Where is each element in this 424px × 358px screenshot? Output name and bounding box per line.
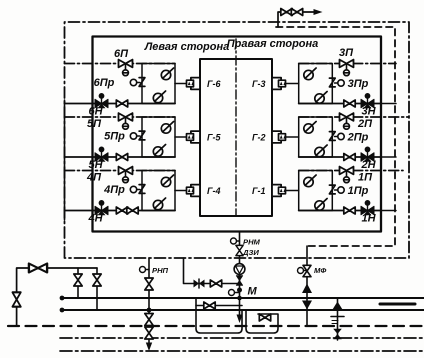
- wire Ф column: [337, 298, 339, 340]
- pump circle: [234, 264, 245, 275]
- valve top branch 1: [281, 9, 292, 16]
- wire dash-dot line 6П: [65, 63, 176, 65]
- wire to connector Г-5: [175, 136, 187, 138]
- wire top external branch: [278, 12, 303, 27]
- gauge upper row 2П: [304, 122, 316, 134]
- connector Г-1: [272, 185, 286, 197]
- wire bypass branch: [184, 258, 240, 284]
- svg-text:6П: 6П: [114, 48, 129, 60]
- gauge lower row 3П: [315, 92, 327, 104]
- svg-text:6Пр: 6Пр: [94, 77, 115, 89]
- wire dash-dot line 3П: [299, 63, 396, 65]
- three-way valve 4Н: [95, 200, 108, 215]
- valve 1П: [340, 167, 354, 183]
- instrument box row 5П: [142, 117, 175, 157]
- gauge lower row 6П: [153, 91, 165, 103]
- wire drop left 1: [77, 268, 79, 298]
- wire dash-dot line 2П: [299, 116, 409, 118]
- check valve МФ upper: [302, 284, 312, 294]
- wire arrow top branch: [303, 11, 318, 13]
- wire РНП riser: [148, 258, 150, 343]
- valve loop 2: [259, 314, 270, 321]
- valve left external: [29, 264, 47, 273]
- svg-text:5Н: 5Н: [88, 159, 103, 171]
- wire line 3Н: [299, 103, 381, 105]
- wire to connector Г-1: [286, 190, 299, 192]
- valve loop 1: [204, 302, 215, 309]
- central distributor box: [200, 59, 272, 216]
- sensor М circle: [229, 290, 240, 296]
- gate valve drop left 2: [93, 274, 101, 286]
- restrictor circle 2Пр: [335, 133, 345, 139]
- gauge lower row 2П: [315, 145, 327, 157]
- valve 3П: [340, 60, 354, 76]
- tee bar Ф: [331, 316, 344, 318]
- wire dash-dot line 1П: [299, 170, 403, 172]
- wire line 6Н: [65, 103, 176, 105]
- centerline of distributor box: [235, 39, 237, 216]
- wire drop left 2: [96, 268, 98, 310]
- gauge upper row 5П: [161, 122, 173, 134]
- valve 5П: [119, 113, 133, 129]
- wire to connector Г-6: [175, 83, 187, 85]
- svg-text:Г-6: Г-6: [207, 79, 222, 89]
- wire to connector Г-2: [286, 136, 299, 138]
- outer dash-dot enclosure frame: [65, 22, 410, 258]
- svg-text:РНП: РНП: [152, 266, 169, 275]
- gauge lower row 1П: [315, 199, 327, 211]
- valve 4П: [119, 167, 133, 183]
- check valve МФ lower: [302, 301, 312, 310]
- valve on line 1Н: [344, 207, 355, 214]
- left header pipe: [64, 100, 66, 220]
- three-way valve 1Н: [361, 200, 374, 215]
- valve on line 5Н: [116, 154, 127, 161]
- wire line 4Н: [65, 210, 176, 212]
- svg-text:Правая сторона: Правая сторона: [227, 38, 319, 50]
- gauge lower row 5П: [153, 145, 165, 157]
- svg-text:4П: 4П: [86, 172, 102, 184]
- instrument box row 4П: [142, 171, 175, 211]
- sensor РНП: [140, 267, 150, 273]
- wire line 5Н: [65, 156, 176, 158]
- gauge upper row 3П: [304, 68, 316, 80]
- svg-text:М: М: [248, 286, 258, 298]
- instrument box row 2П: [299, 117, 333, 157]
- connector Г-3: [272, 78, 286, 90]
- svg-text:3П: 3П: [339, 47, 354, 59]
- svg-text:РНМ: РНМ: [243, 238, 261, 247]
- dashed drain line: [8, 325, 424, 327]
- gate valve РНП upper: [145, 278, 153, 290]
- gauge upper row 1П: [304, 175, 316, 187]
- svg-text:1Пр: 1Пр: [348, 185, 369, 197]
- valve on line 2Н: [344, 154, 355, 161]
- connector Г-6: [187, 78, 201, 90]
- connector Г-5: [187, 131, 201, 143]
- three-way valve 2Н: [361, 147, 374, 162]
- sensor МФ: [298, 268, 308, 274]
- connector Г-4: [187, 185, 201, 197]
- three-way valve 6Н: [95, 93, 108, 108]
- gate valve Ф: [333, 329, 342, 339]
- loop coil 2: [246, 310, 278, 333]
- gauge lower row 4П: [153, 198, 165, 210]
- svg-text:Г-2: Г-2: [252, 133, 266, 143]
- gauge upper row 4П: [161, 175, 173, 187]
- instrument box row 1П: [299, 171, 333, 211]
- wire dash-dot line 4П: [65, 170, 176, 172]
- svg-text:4Пр: 4Пр: [103, 184, 125, 196]
- restrictor circle 1Пр: [335, 187, 345, 193]
- svg-text:3Пр: 3Пр: [348, 78, 369, 90]
- gauge upper row 6П: [161, 68, 173, 80]
- wire to connector Г-4: [175, 190, 187, 192]
- svg-text:2Н: 2Н: [360, 159, 376, 171]
- junction dot РНП line2: [147, 308, 152, 313]
- main solid enclosure box: [93, 37, 382, 232]
- svg-text:Г-3: Г-3: [252, 79, 266, 89]
- three-way valve 3Н: [361, 93, 374, 108]
- svg-text:Г-4: Г-4: [207, 186, 221, 196]
- svg-text:4Н: 4Н: [87, 213, 103, 225]
- pipe main line 1: [61, 297, 424, 299]
- dash-dot service line 1: [60, 337, 424, 339]
- svg-text:1П: 1П: [358, 172, 373, 184]
- gate valve drop left 1: [74, 274, 82, 286]
- svg-text:Г-1: Г-1: [252, 186, 266, 196]
- check valve М: [236, 276, 242, 286]
- dashed boundary box: [276, 27, 395, 246]
- valve top branch 2: [291, 9, 302, 16]
- valve on line 6Н: [116, 100, 127, 107]
- arrow М end: [237, 315, 243, 324]
- loop coil 1: [196, 298, 242, 333]
- arrow РНП end: [146, 343, 152, 352]
- dash-dot service line 2: [60, 350, 424, 352]
- svg-text:3Н: 3Н: [361, 106, 376, 118]
- junction dot М: [237, 288, 242, 293]
- instrument box row 6П: [142, 64, 175, 104]
- wire МФ riser: [306, 246, 308, 326]
- wire left external branch: [17, 268, 97, 325]
- wire extension 2Н: [381, 156, 396, 158]
- svg-text:1Н: 1Н: [361, 213, 376, 225]
- svg-text:Г-5: Г-5: [207, 133, 222, 143]
- gate valve left riser: [12, 292, 20, 306]
- svg-text:ДЗИ: ДЗИ: [242, 248, 259, 257]
- gate valve РНП mid: [145, 314, 153, 326]
- flow marker thick segment: [380, 303, 415, 306]
- svg-text:5Пр: 5Пр: [104, 131, 125, 143]
- three-way valve 5Н: [95, 147, 108, 162]
- restrictor circle 4Пр: [130, 186, 140, 192]
- svg-text:Левая сторона: Левая сторона: [144, 41, 230, 53]
- wire dash-dot line 5П: [65, 116, 176, 118]
- pipe main line 2: [61, 309, 424, 311]
- instrument box row 3П: [299, 64, 333, 104]
- junction dot М pipe1: [237, 296, 242, 301]
- svg-text:5П: 5П: [87, 118, 102, 130]
- wire line 1Н: [299, 210, 381, 212]
- valve 6П: [119, 60, 133, 76]
- restrictor circle 3Пр: [335, 80, 345, 86]
- wire extension 1Н: [381, 210, 396, 212]
- second valve on line 4Н: [127, 207, 138, 214]
- valve ДЗИ: [236, 245, 243, 255]
- svg-text:6Н: 6Н: [88, 106, 103, 118]
- marks Ф: [332, 320, 338, 322]
- svg-text:2П: 2П: [357, 118, 373, 130]
- valve МФ: [303, 265, 311, 276]
- svg-text:2Пр: 2Пр: [347, 132, 369, 144]
- gate valve РНП lower: [145, 327, 153, 339]
- valve on line 3Н: [344, 100, 355, 107]
- wire М riser: [239, 232, 241, 316]
- svg-text:МФ: МФ: [314, 266, 326, 275]
- valve bypass solid: [194, 279, 205, 288]
- connector Г-2: [272, 131, 286, 143]
- restrictor circle 6Пр: [130, 79, 140, 85]
- check valve Ф: [333, 302, 343, 310]
- valve 2П: [340, 113, 354, 129]
- wire to connector Г-3: [286, 83, 299, 85]
- valve on line 4Н: [116, 207, 127, 214]
- sensor РНМ: [231, 238, 240, 244]
- restrictor circle 5Пр: [130, 133, 140, 139]
- valve bypass open: [210, 280, 221, 287]
- wire line 2Н: [299, 156, 381, 158]
- wire extension 3Н: [381, 103, 396, 105]
